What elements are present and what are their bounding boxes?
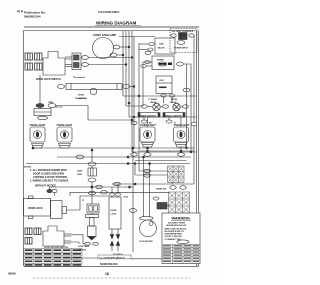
spark module box bbox=[152, 56, 174, 70]
junction bbox=[180, 150, 182, 152]
wire bbox=[161, 106, 163, 108]
module inner oval bbox=[158, 62, 167, 66]
latch bracket bbox=[51, 201, 67, 219]
title WIRING DIAGRAM bbox=[96, 21, 136, 26]
EOC bottom ovals bbox=[161, 94, 175, 104]
wire bbox=[132, 151, 197, 153]
oval on wire bbox=[144, 169, 151, 172]
svg-text:DOOR: DOOR bbox=[111, 210, 118, 212]
svg-text:TGC60BAWC: TGC60BAWC bbox=[98, 10, 120, 14]
svg-text:SWITCH: SWITCH bbox=[78, 98, 86, 100]
EOC inner mark bbox=[159, 87, 167, 89]
lock motor inner bbox=[149, 222, 153, 226]
clock text bbox=[158, 43, 166, 50]
oven sensor probe bbox=[86, 213, 99, 240]
thermostat label bottom bbox=[75, 97, 87, 100]
svg-text:2. WIRING SUBJECT TO CHANGE: 2. WIRING SUBJECT TO CHANGE bbox=[30, 180, 69, 183]
wire bbox=[130, 86, 134, 88]
thermal cutout TOD bbox=[34, 109, 51, 120]
power input label bbox=[174, 48, 189, 50]
wire bbox=[139, 49, 148, 51]
oven light 1 label bbox=[30, 123, 46, 127]
vent oval 2 bbox=[189, 34, 194, 37]
lock motor label bbox=[139, 241, 153, 243]
door lock motor label bbox=[111, 210, 118, 215]
svg-text:OVEN TEMP: OVEN TEMP bbox=[78, 246, 90, 248]
thermostat oval left bbox=[57, 85, 64, 89]
vertical bus wires bbox=[123, 31, 132, 152]
junction bbox=[129, 186, 131, 188]
probe label small bbox=[82, 200, 84, 202]
junction bbox=[133, 116, 135, 118]
legend table bbox=[162, 245, 200, 264]
wire bbox=[183, 64, 191, 152]
legend paragraph bbox=[165, 227, 188, 240]
wire bbox=[120, 46, 129, 48]
oval on right vertical bbox=[183, 88, 190, 92]
door lock switch body bbox=[43, 52, 65, 76]
vent oval 3 bbox=[177, 41, 185, 45]
publication number text bbox=[24, 11, 46, 19]
wire bbox=[139, 43, 149, 45]
thermostat oval right bbox=[122, 85, 129, 89]
thermostat body bbox=[66, 84, 122, 95]
oven light 1 bbox=[30, 127, 45, 148]
wire bbox=[167, 205, 170, 207]
wire bbox=[50, 186, 134, 188]
arrows linkage bbox=[110, 229, 120, 251]
oven light 3 bbox=[140, 117, 155, 153]
oval on wire bbox=[129, 209, 136, 213]
oval on wire bbox=[101, 191, 108, 194]
footer page bbox=[105, 272, 109, 276]
stray mark bbox=[17, 10, 23, 12]
wire bbox=[148, 106, 153, 108]
wire pair to connector grid bbox=[135, 164, 168, 176]
sensor fuse box bbox=[88, 168, 97, 176]
svg-text:VIOLET Y YELLOW: VIOLET Y YELLOW bbox=[165, 236, 182, 238]
bottom part number bbox=[100, 262, 118, 266]
svg-text:L1: L1 bbox=[148, 99, 150, 101]
svg-text:CONTROLS IN OFF POSITION: CONTROLS IN OFF POSITION bbox=[33, 176, 67, 179]
oval on wire bbox=[114, 182, 121, 185]
terminal oval bbox=[82, 56, 89, 60]
oval under bulb3 bbox=[144, 153, 151, 157]
top vent controls dashed box bbox=[170, 29, 197, 53]
junction bbox=[128, 102, 130, 104]
maker box bbox=[98, 255, 131, 259]
door lock assembly box bbox=[24, 196, 51, 219]
svg-text:5995281164: 5995281164 bbox=[100, 262, 118, 266]
junction bbox=[32, 147, 34, 149]
junction bbox=[131, 57, 133, 59]
junction bbox=[138, 95, 140, 97]
wire bbox=[88, 64, 126, 66]
notes text block bbox=[24, 167, 69, 188]
spark ignition grid bbox=[169, 192, 190, 213]
wire bbox=[132, 148, 134, 252]
sensor circuit oval bbox=[88, 162, 96, 166]
wire bbox=[50, 187, 110, 210]
wire bbox=[133, 37, 135, 149]
svg-text:OVEN: OVEN bbox=[77, 171, 83, 173]
module inner marks bbox=[159, 63, 172, 66]
junction bbox=[127, 163, 129, 165]
svg-text:CONV FAN/LAMP: CONV FAN/LAMP bbox=[93, 33, 116, 37]
svg-text:LOCK: LOCK bbox=[111, 213, 117, 215]
junction bbox=[147, 150, 149, 152]
oval on wire bbox=[144, 174, 151, 177]
warning title bbox=[172, 216, 190, 220]
lock motor top ellipse bbox=[140, 216, 154, 220]
top vent label bbox=[172, 31, 194, 33]
oven light 4 label bbox=[174, 123, 190, 127]
junction bbox=[125, 64, 127, 66]
junction bbox=[122, 54, 124, 56]
header rule bbox=[24, 26, 199, 28]
title underline bbox=[95, 25, 141, 27]
door lock switch label bbox=[36, 78, 61, 81]
svg-text:1. ALL SWITCHES SHOWN WITH: 1. ALL SWITCHES SHOWN WITH bbox=[30, 169, 67, 172]
legend oval stamp bbox=[177, 240, 189, 244]
sensor connector bbox=[87, 204, 99, 213]
igniter terminal ovals bbox=[141, 117, 172, 123]
clock left ovals bbox=[148, 43, 154, 52]
EOC divider bbox=[156, 82, 172, 84]
oval above dark box bbox=[153, 197, 159, 200]
lock motor wires bbox=[144, 157, 150, 217]
junction bbox=[91, 186, 93, 188]
bake valve label bbox=[150, 98, 158, 104]
junction bbox=[190, 151, 192, 153]
oven light 3 label bbox=[140, 123, 156, 127]
sensor label bbox=[78, 246, 90, 252]
junction bbox=[131, 119, 133, 121]
switch box dark bbox=[157, 203, 167, 210]
svg-text:FUSE: FUSE bbox=[77, 174, 83, 176]
oval on wire bbox=[76, 155, 84, 159]
svg-text:P1: P1 bbox=[82, 200, 84, 202]
oven light 2 bbox=[57, 127, 72, 148]
wire bbox=[135, 160, 187, 162]
svg-text:09/06: 09/06 bbox=[8, 272, 16, 276]
sensor oval 3 bbox=[88, 191, 95, 195]
svg-text:EOC: EOC bbox=[160, 80, 165, 82]
broil igniter bbox=[163, 113, 185, 118]
connector grid box bbox=[168, 166, 185, 183]
wire horizontal runs to right block bbox=[123, 96, 197, 117]
EOC text bbox=[160, 80, 165, 82]
wire bbox=[91, 150, 93, 162]
oval on bus bbox=[131, 153, 138, 157]
junction bbox=[132, 147, 134, 149]
wire bbox=[181, 106, 183, 108]
lock motor circle bbox=[140, 220, 157, 237]
vent oval 1 bbox=[171, 34, 176, 37]
svg-text:WH WHITE R RED GY: WH WHITE R RED GY bbox=[165, 231, 185, 233]
wire bbox=[119, 36, 155, 38]
lamp terminal oval bbox=[113, 45, 120, 49]
module oval top bbox=[145, 51, 151, 54]
junction bbox=[147, 147, 149, 149]
oval on wire bbox=[96, 185, 103, 188]
switch output pins bbox=[65, 57, 72, 67]
oven lamp label bbox=[93, 33, 116, 37]
thermostat label bbox=[73, 76, 85, 79]
spark module right oval bbox=[177, 62, 184, 66]
broil valve label bbox=[170, 99, 178, 104]
connector block J1 bbox=[72, 53, 81, 70]
clock box bbox=[155, 38, 175, 54]
TOD top label bbox=[48, 102, 54, 104]
wire bbox=[91, 166, 93, 168]
lamp terminal oval bbox=[110, 53, 117, 57]
svg-text:LOCK: LOCK bbox=[123, 197, 129, 199]
door lock label bbox=[28, 207, 43, 210]
bake igniter bbox=[138, 113, 160, 118]
door lock motor box bbox=[109, 184, 121, 229]
wire bbox=[70, 192, 170, 196]
svg-text:WIRING DIAGRAM: WIRING DIAGRAM bbox=[96, 21, 136, 26]
perforation dotted line bbox=[33, 277, 190, 279]
svg-text:LIMIT: LIMIT bbox=[48, 102, 54, 104]
title underline bbox=[171, 219, 191, 221]
wire bbox=[88, 57, 132, 59]
lock motor switch label bbox=[44, 247, 69, 249]
oven lamp circle B1 bbox=[93, 38, 114, 59]
model number text bbox=[98, 10, 120, 14]
wire to spark module bbox=[141, 61, 152, 107]
footer date bbox=[8, 272, 16, 276]
svg-text:WARNING: WARNING bbox=[172, 216, 190, 220]
arrow labels bbox=[113, 253, 123, 256]
wire bbox=[56, 106, 132, 121]
unlock label bbox=[78, 95, 86, 100]
TOD oval 2 bbox=[48, 104, 56, 108]
junction bbox=[128, 46, 130, 48]
vent grid bbox=[179, 33, 188, 40]
svg-text:DOOR: DOOR bbox=[78, 95, 85, 97]
wire bbox=[112, 183, 194, 185]
wire bbox=[91, 182, 93, 204]
wire bbox=[138, 43, 140, 171]
sensor oval 2 bbox=[88, 178, 96, 182]
TOD wire down bbox=[39, 75, 41, 104]
oval on bus top bbox=[131, 121, 137, 124]
junction bbox=[91, 149, 93, 151]
junction bbox=[133, 86, 135, 88]
TOD label bbox=[55, 106, 63, 109]
junction bbox=[186, 147, 188, 149]
terminal oval bbox=[82, 63, 89, 67]
latch terminal ovals bbox=[85, 242, 91, 245]
svg-text:18: 18 bbox=[105, 272, 109, 276]
legend warning box bbox=[162, 213, 200, 264]
lock motor switch terminals bbox=[25, 228, 41, 244]
table text marks bbox=[25, 249, 81, 265]
lock motor switch body bbox=[43, 226, 64, 246]
switch pins bbox=[64, 234, 71, 243]
broil valve coil bbox=[173, 103, 180, 110]
svg-text:POWER INPUT: POWER INPUT bbox=[174, 48, 189, 50]
svg-text:DOOR CLOSED AND OVEN: DOOR CLOSED AND OVEN bbox=[33, 173, 64, 176]
legend table text bbox=[163, 245, 199, 262]
valve ovals bbox=[142, 105, 189, 108]
svg-text:NOTES:: NOTES: bbox=[24, 167, 32, 169]
svg-text:BROIL IGNITOR: BROIL IGNITOR bbox=[166, 115, 182, 117]
svg-text:DOOR LOCK: DOOR LOCK bbox=[28, 207, 43, 210]
svg-text:BROIL: BROIL bbox=[171, 99, 178, 101]
wire bus middle bbox=[26, 148, 194, 164]
small text under EOC bbox=[148, 99, 150, 101]
motor side label bbox=[123, 197, 129, 199]
switch chart table bbox=[24, 249, 82, 267]
junction bbox=[134, 183, 136, 185]
wire bbox=[171, 183, 173, 185]
oven light 2 label bbox=[57, 123, 73, 127]
TOD oval bbox=[36, 104, 44, 108]
latch ovals bbox=[47, 189, 52, 192]
spark module text bbox=[157, 59, 164, 62]
diagram frame bbox=[24, 31, 200, 267]
spark switch ovals bbox=[170, 186, 186, 190]
EOC box bbox=[156, 76, 172, 94]
right verticals bbox=[187, 35, 197, 184]
warning subtitle bbox=[167, 222, 187, 227]
oval under bulb4 bbox=[177, 153, 184, 157]
door lock switch terminals (top left) bbox=[25, 53, 42, 70]
junction bbox=[127, 156, 129, 158]
junction bbox=[143, 156, 145, 158]
oven light 4 bbox=[174, 117, 189, 153]
wire bbox=[117, 54, 123, 56]
wire bbox=[71, 235, 85, 244]
junction bbox=[134, 163, 136, 165]
svg-text:LOCK MOTOR: LOCK MOTOR bbox=[139, 241, 153, 243]
fuse label bbox=[77, 171, 83, 177]
igniter oval labels bbox=[149, 123, 176, 125]
spark sw label bbox=[156, 188, 166, 191]
junction bbox=[149, 163, 151, 165]
bake valve coil bbox=[153, 103, 160, 110]
svg-text:5995281164: 5995281164 bbox=[24, 15, 41, 19]
